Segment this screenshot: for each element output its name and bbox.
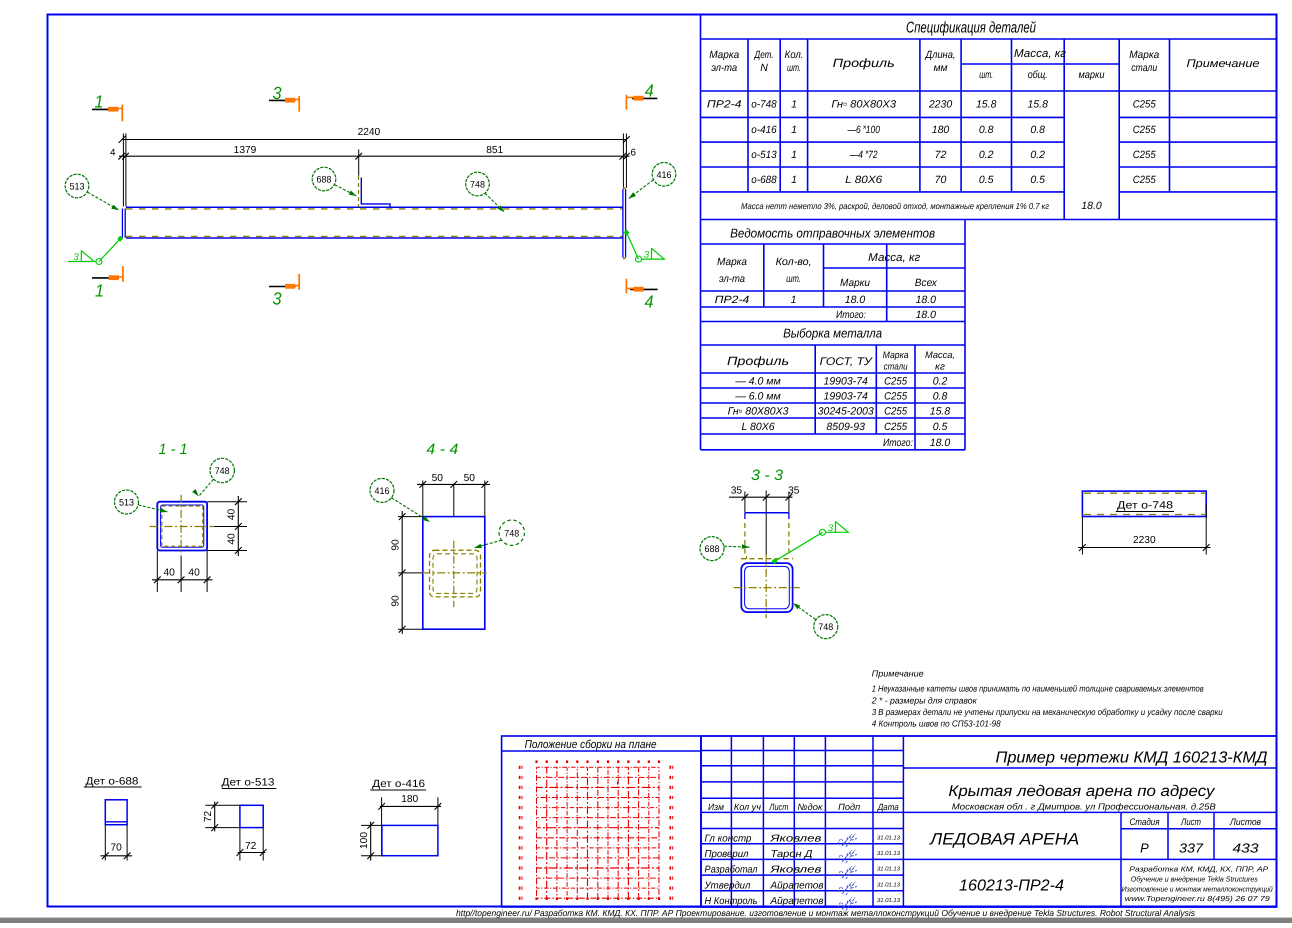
svg-text:513: 513 bbox=[119, 498, 134, 509]
svg-text:стали: стали bbox=[884, 362, 909, 373]
svg-text:748: 748 bbox=[818, 622, 833, 633]
svg-text:С255: С255 bbox=[1133, 174, 1156, 186]
svg-text:0.8: 0.8 bbox=[1030, 124, 1045, 136]
svg-text:С255: С255 bbox=[1133, 149, 1156, 161]
svg-text:о-513: о-513 bbox=[751, 149, 777, 161]
svg-text:18.0: 18.0 bbox=[930, 437, 951, 449]
svg-text:о-416: о-416 bbox=[751, 124, 777, 136]
svg-text:2 * - размеры для справок: 2 * - размеры для справок bbox=[871, 695, 978, 705]
svg-text:Стадия: Стадия bbox=[1130, 817, 1160, 828]
svg-text:688: 688 bbox=[705, 544, 720, 555]
svg-text:3: 3 bbox=[273, 83, 282, 103]
svg-text:Изготовление и монтаж металлок: Изготовление и монтаж металлоконструкций bbox=[1122, 885, 1273, 894]
svg-text:Крытая ледовая арена по адресу: Крытая ледовая арена по адресу bbox=[948, 783, 1215, 800]
svg-text:8509-93: 8509-93 bbox=[826, 421, 865, 433]
svg-text:30245-2003: 30245-2003 bbox=[818, 405, 874, 417]
svg-text:Тарон Д: Тарон Д bbox=[771, 849, 813, 860]
svg-text:1: 1 bbox=[791, 294, 797, 306]
svg-text:1: 1 bbox=[791, 149, 797, 161]
svg-text:3: 3 bbox=[644, 250, 650, 261]
svg-text:Масса,: Масса, bbox=[925, 350, 955, 361]
svg-text:Положение сборки на плане: Положение сборки на плане bbox=[525, 739, 657, 751]
svg-text:С255: С255 bbox=[884, 405, 907, 417]
svg-text:337: 337 bbox=[1179, 841, 1204, 856]
svg-text:3: 3 bbox=[273, 289, 282, 309]
svg-text:Гн▫ 80X80X3: Гн▫ 80X80X3 bbox=[831, 99, 896, 111]
svg-text:40: 40 bbox=[227, 509, 238, 521]
svg-text:Кол уч: Кол уч bbox=[734, 802, 761, 812]
svg-text:Айрапетов: Айрапетов bbox=[770, 896, 824, 907]
svg-text:0.2: 0.2 bbox=[979, 149, 994, 161]
svg-text:эл-та: эл-та bbox=[711, 62, 737, 74]
svg-text:19903-74: 19903-74 bbox=[824, 375, 869, 387]
svg-text:100: 100 bbox=[359, 832, 370, 849]
svg-text:50: 50 bbox=[464, 473, 476, 484]
svg-text:748: 748 bbox=[470, 180, 485, 191]
svg-text:кг: кг bbox=[935, 362, 945, 373]
svg-text:шт.: шт. bbox=[786, 273, 801, 285]
svg-text:90: 90 bbox=[391, 595, 402, 607]
svg-text:Кол-во,: Кол-во, bbox=[776, 256, 812, 268]
svg-text:эл-та: эл-та bbox=[719, 273, 745, 285]
svg-text:1: 1 bbox=[95, 92, 104, 112]
svg-text:1 - 1: 1 - 1 bbox=[159, 441, 188, 458]
svg-text:40: 40 bbox=[164, 567, 176, 578]
svg-text:Марка: Марка bbox=[709, 49, 739, 61]
svg-text:Примечание: Примечание bbox=[1187, 58, 1260, 70]
svg-text:748: 748 bbox=[504, 528, 519, 539]
svg-text:Подп: Подп bbox=[838, 802, 860, 812]
svg-text:Дет о-688: Дет о-688 bbox=[86, 776, 139, 788]
svg-text:мм: мм bbox=[934, 62, 948, 74]
svg-text:Дет о-416: Дет о-416 bbox=[372, 778, 425, 790]
svg-text:Итого:: Итого: bbox=[836, 309, 866, 321]
svg-text:N: N bbox=[760, 62, 768, 74]
svg-text:Кол.: Кол. bbox=[785, 49, 804, 61]
svg-text:общ.: общ. bbox=[1028, 69, 1048, 81]
svg-text:416: 416 bbox=[657, 170, 672, 181]
svg-text:Лист: Лист bbox=[1180, 817, 1201, 828]
svg-text:Профиль: Профиль bbox=[727, 354, 789, 368]
svg-text:1: 1 bbox=[791, 174, 797, 186]
svg-text:4: 4 bbox=[110, 148, 116, 159]
svg-text:о-748: о-748 bbox=[751, 99, 777, 111]
svg-text:Масса, кг: Масса, кг bbox=[868, 252, 920, 264]
svg-text:70: 70 bbox=[111, 842, 123, 853]
svg-text:http//topengineer.ru/ Разрабо: http//topengineer.ru/ Разработка КМ. КМД… bbox=[456, 908, 1196, 918]
svg-text:www.Topengineer.ru 8(49: www.Topengineer.ru 8(495) 26 07 79 bbox=[1125, 894, 1270, 903]
svg-text:Изм: Изм bbox=[708, 802, 724, 812]
svg-text:Утвердил: Утвердил bbox=[704, 880, 751, 891]
svg-text:Профиль: Профиль bbox=[833, 56, 895, 70]
svg-text:Примечание: Примечание bbox=[872, 669, 924, 679]
svg-text:Лист: Лист bbox=[769, 802, 789, 812]
svg-text:18.0: 18.0 bbox=[1081, 200, 1102, 212]
svg-text:748: 748 bbox=[215, 466, 230, 477]
svg-text:L 80X6: L 80X6 bbox=[741, 421, 774, 433]
svg-text:Дет о-513: Дет о-513 bbox=[222, 776, 275, 788]
svg-text:18.0: 18.0 bbox=[916, 294, 937, 306]
svg-text:72: 72 bbox=[935, 149, 947, 161]
svg-text:Листов: Листов bbox=[1229, 817, 1261, 828]
svg-text:19903-74: 19903-74 bbox=[824, 390, 869, 402]
svg-text:15.8: 15.8 bbox=[930, 405, 951, 417]
svg-text:стали: стали bbox=[1131, 62, 1157, 74]
svg-text:70: 70 bbox=[935, 174, 947, 186]
svg-text:Проверил: Проверил bbox=[705, 849, 749, 860]
svg-text:72: 72 bbox=[245, 841, 257, 852]
svg-text:2230: 2230 bbox=[1133, 535, 1156, 546]
svg-text:Масса, кг: Масса, кг bbox=[1014, 48, 1066, 60]
svg-text:Гн▫ 80X80X3: Гн▫ 80X80X3 bbox=[728, 405, 789, 417]
svg-text:0.5: 0.5 bbox=[1030, 174, 1045, 186]
svg-text:0.8: 0.8 bbox=[979, 124, 994, 136]
svg-text:2240: 2240 bbox=[358, 127, 381, 138]
svg-text:416: 416 bbox=[375, 486, 390, 497]
svg-text:Марка: Марка bbox=[883, 350, 909, 361]
svg-text:С255: С255 bbox=[884, 390, 907, 402]
svg-text:433: 433 bbox=[1233, 841, 1260, 856]
svg-text:шт.: шт. bbox=[979, 69, 993, 81]
svg-text:ЛЕДОВАЯ АРЕНА: ЛЕДОВАЯ АРЕНА bbox=[929, 831, 1079, 849]
svg-text:4 - 4: 4 - 4 bbox=[426, 441, 458, 458]
svg-text:Гл констр: Гл констр bbox=[705, 833, 752, 844]
svg-text:35: 35 bbox=[731, 485, 743, 496]
svg-text:2230: 2230 bbox=[928, 99, 953, 111]
svg-text:Марка: Марка bbox=[717, 256, 747, 268]
svg-text:4: 4 bbox=[645, 81, 654, 101]
svg-text:Марка: Марка bbox=[1129, 49, 1159, 61]
svg-text:1379: 1379 bbox=[234, 145, 257, 156]
svg-text:Итого:: Итого: bbox=[883, 437, 913, 449]
svg-text:3 - 3: 3 - 3 bbox=[751, 467, 784, 484]
svg-text:1: 1 bbox=[791, 124, 797, 136]
svg-text:Яковлев: Яковлев bbox=[769, 833, 821, 844]
svg-text:31.01.13: 31.01.13 bbox=[877, 834, 901, 841]
svg-text:С255: С255 bbox=[1133, 124, 1156, 136]
svg-text:0.5: 0.5 bbox=[933, 421, 948, 433]
svg-text:15.8: 15.8 bbox=[1027, 99, 1048, 111]
svg-text:18.0: 18.0 bbox=[916, 309, 937, 321]
svg-text:31.01.13: 31.01.13 bbox=[877, 897, 901, 904]
svg-text:0.5: 0.5 bbox=[979, 174, 994, 186]
svg-text:31.01.13: 31.01.13 bbox=[877, 866, 901, 873]
svg-text:Дет о-748: Дет о-748 bbox=[1117, 500, 1173, 512]
svg-text:С255: С255 bbox=[884, 421, 907, 433]
svg-text:Московская обл . г Дмитров. ул: Московская обл . г Дмитров. ул Профессио… bbox=[952, 802, 1216, 812]
svg-text:—4 ˟72: —4 ˟72 bbox=[849, 149, 878, 161]
svg-text:ПР2-4: ПР2-4 bbox=[715, 294, 750, 306]
svg-text:Дата: Дата bbox=[877, 802, 899, 812]
svg-text:№док: №док bbox=[797, 802, 823, 812]
svg-text:4 Контроль швов по СП53-101-9: 4 Контроль швов по СП53-101-98 bbox=[872, 719, 1001, 729]
svg-text:Спецификация деталей: Спецификация деталей bbox=[906, 20, 1036, 37]
svg-text:40: 40 bbox=[227, 533, 238, 545]
svg-text:С255: С255 bbox=[884, 375, 907, 387]
svg-text:50: 50 bbox=[432, 473, 444, 484]
svg-text:180: 180 bbox=[401, 794, 418, 805]
svg-text:Р: Р bbox=[1140, 841, 1149, 856]
svg-text:Длина,: Длина, bbox=[925, 49, 956, 61]
svg-text:72: 72 bbox=[203, 811, 214, 823]
svg-text:Марки: Марки bbox=[840, 277, 870, 289]
svg-text:марки: марки bbox=[1079, 69, 1105, 81]
svg-text:ГОСТ, ТУ: ГОСТ, ТУ bbox=[820, 356, 873, 368]
svg-text:3: 3 bbox=[828, 523, 834, 534]
svg-text:688: 688 bbox=[317, 175, 332, 186]
svg-text:90: 90 bbox=[391, 539, 402, 551]
svg-text:851: 851 bbox=[486, 145, 503, 156]
svg-text:40: 40 bbox=[188, 567, 200, 578]
svg-text:513: 513 bbox=[70, 182, 85, 193]
svg-text:Ведомость отправочных элементо: Ведомость отправочных элементов bbox=[730, 226, 935, 241]
svg-text:0.2: 0.2 bbox=[933, 375, 948, 387]
svg-text:31.01.13: 31.01.13 bbox=[877, 850, 901, 857]
svg-text:Яковлев: Яковлев bbox=[769, 865, 821, 876]
svg-text:6: 6 bbox=[631, 148, 637, 159]
svg-text:Разработал: Разработал bbox=[705, 865, 758, 876]
svg-text:4: 4 bbox=[645, 292, 654, 312]
svg-text:—6 ˟100: —6 ˟100 bbox=[847, 124, 880, 136]
svg-text:31.01.13: 31.01.13 bbox=[877, 881, 901, 888]
svg-text:0.8: 0.8 bbox=[933, 390, 948, 402]
svg-text:35: 35 bbox=[788, 485, 800, 496]
svg-text:3: 3 bbox=[73, 252, 79, 263]
svg-text:Обучение и внедрение Tekla St: Обучение и внедрение Tekla Structures bbox=[1131, 875, 1258, 884]
svg-text:L 80X6: L 80X6 bbox=[845, 174, 882, 186]
svg-text:С255: С255 bbox=[1133, 99, 1156, 111]
svg-text:Пример чертежи КМД 160213-КМД: Пример чертежи КМД 160213-КМД bbox=[996, 750, 1268, 767]
svg-text:0.2: 0.2 bbox=[1030, 149, 1045, 161]
svg-text:Айрапетов: Айрапетов bbox=[770, 880, 824, 891]
svg-text:— 4.0 мм: — 4.0 мм bbox=[734, 375, 780, 387]
svg-text:шт.: шт. bbox=[787, 62, 801, 74]
svg-text:18.0: 18.0 bbox=[845, 294, 866, 306]
svg-text:Выборка металла: Выборка металла bbox=[783, 326, 882, 341]
svg-text:160213-ПР2-4: 160213-ПР2-4 bbox=[959, 878, 1064, 895]
svg-text:15.8: 15.8 bbox=[976, 99, 997, 111]
svg-text:1: 1 bbox=[95, 281, 104, 301]
svg-text:3 В размерах детали не учтены: 3 В размерах детали не учтены припуски н… bbox=[872, 707, 1223, 717]
svg-text:Разработка КМ, КМД, КХ, ППР, А: Разработка КМ, КМД, КХ, ППР, АР bbox=[1129, 865, 1268, 874]
svg-text:— 6.0 мм: — 6.0 мм bbox=[734, 390, 780, 402]
svg-text:Дет.: Дет. bbox=[754, 49, 774, 61]
svg-text:180: 180 bbox=[932, 124, 950, 136]
svg-text:1 Неуказанные катеты швов при: 1 Неуказанные катеты швов принимать по н… bbox=[872, 684, 1204, 694]
svg-text:Масса нетт неметло 3%, раскро: Масса нетт неметло 3%, раскрой, деловой … bbox=[741, 201, 1050, 211]
svg-text:о-688: о-688 bbox=[751, 174, 777, 186]
svg-text:Н Контроль: Н Контроль bbox=[705, 896, 758, 907]
svg-text:1: 1 bbox=[791, 99, 797, 111]
svg-text:ПР2-4: ПР2-4 bbox=[707, 99, 742, 111]
svg-text:Всех: Всех bbox=[915, 277, 938, 289]
